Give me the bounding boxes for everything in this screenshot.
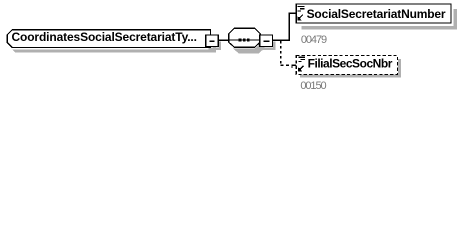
sequence indicator [229,28,261,47]
expand button 2 [260,35,273,46]
element FilialSecSocNbr box (optional, dashed) [296,55,397,74]
wire: lead into SocialSecretariatNumber [289,12,297,14]
minus sign 2 [264,40,270,42]
svg-text:00479: 00479 [301,34,327,46]
svg-text:CoordinatesSocialSecretariatTy: CoordinatesSocialSecretariatTy... [12,30,197,44]
element content icon (text lines + arrow) [298,57,305,61]
svg-text:SocialSecretariatNumber: SocialSecretariatNumber [307,7,446,21]
sequence line [229,39,260,41]
expand button 1 shadow [208,42,221,50]
svg-text:00150: 00150 [300,80,326,92]
sequence dot 1 [239,38,242,41]
complexType box CoordinatesSocialSecretariatType shadow [12,35,216,53]
wire: branch vertical solid (to required child) [288,13,290,41]
sequence dot 3 [247,38,250,41]
element SocialSecretariatNumber shadow [302,9,458,29]
wire: expand button 2 to branch junction [273,39,290,41]
wire: branch vertical dashed (to optional child) [280,41,282,65]
element FilialSecSocNbr shadow [300,59,401,78]
minus sign 1 [209,40,214,42]
sequence indicator shadow [233,34,265,53]
expand button 2 shadow [263,42,276,50]
wire: dashed lead into FilialSecSocNbr [280,64,283,66]
wire: dash elbow stub artifact [291,65,293,68]
element SocialSecretariatNumber box [296,4,451,23]
sequence dot 2 [243,38,246,41]
complexType box CoordinatesSocialSecretariatType [7,30,210,48]
svg-text:FilialSecSocNbr: FilialSecSocNbr [308,57,393,71]
wire: expand button 1 to sequence indicator [218,39,229,41]
expand button 1 [206,35,219,46]
element content icon (text lines + arrow) [298,7,305,11]
